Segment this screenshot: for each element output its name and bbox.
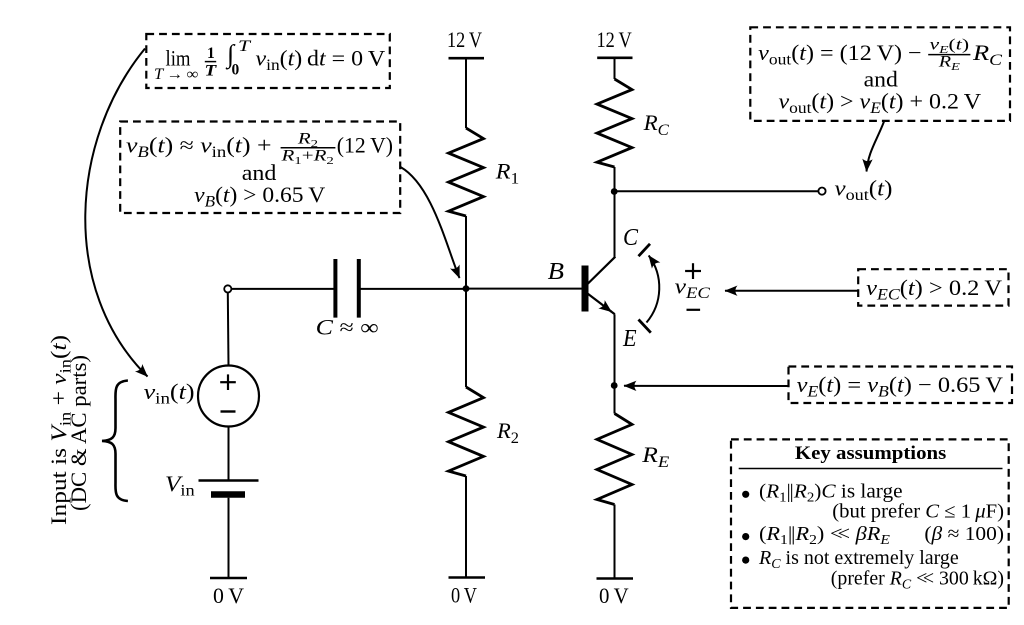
svg-text:(DC & AC parts): (DC & AC parts) bbox=[66, 355, 91, 511]
svg-text:T: T bbox=[205, 63, 217, 80]
annotation box: v_EC constraint bbox=[858, 269, 1008, 305]
svg-text:(β ≈ 100): (β ≈ 100) bbox=[924, 523, 1004, 545]
source v_in bbox=[198, 366, 259, 427]
annotation box: v_E equation bbox=[789, 367, 1013, 404]
svg-text:vE(t) = vB(t) − 0.65 V: vE(t) = vB(t) − 0.65 V bbox=[797, 372, 1004, 401]
wire R2 to ground bbox=[465, 476, 467, 578]
svg-text:(12 V): (12 V) bbox=[337, 133, 393, 158]
wire R1 to node B bbox=[465, 216, 467, 289]
vEC voltage arc bbox=[639, 244, 660, 333]
vout terminal bbox=[818, 188, 825, 195]
label + vEC minus bbox=[675, 263, 711, 310]
supply 12V (output column) bbox=[597, 27, 633, 58]
annotation box: key assumptions bbox=[731, 439, 1009, 608]
resistor R2 bbox=[449, 387, 520, 476]
svg-text:T: T bbox=[238, 38, 252, 55]
svg-text:Key assumptions: Key assumptions bbox=[795, 444, 946, 464]
ground (divider) bbox=[449, 578, 486, 608]
capacitor C bbox=[316, 259, 379, 340]
wire vout node to terminal bbox=[614, 190, 818, 192]
transistor Q1 bbox=[582, 257, 616, 315]
wire terminal to capacitor bbox=[231, 288, 335, 290]
wire source to battery bbox=[228, 427, 230, 481]
svg-text:0 V: 0 V bbox=[213, 583, 244, 608]
wire node B to R2 bbox=[465, 289, 467, 387]
svg-text:C ≈ ∞: C ≈ ∞ bbox=[316, 315, 379, 340]
wire supply to RC bbox=[614, 58, 616, 79]
svg-text:vin(t): vin(t) bbox=[144, 379, 195, 408]
svg-text:1: 1 bbox=[207, 45, 215, 62]
node vout junction bbox=[611, 188, 618, 195]
wire emitter to node E bbox=[614, 314, 616, 385]
svg-text:(but prefer C ≤ 1 μF): (but prefer C ≤ 1 μF) bbox=[832, 501, 1004, 523]
svg-text:12 V: 12 V bbox=[597, 27, 632, 52]
svg-text:C: C bbox=[623, 225, 639, 251]
svg-text:E: E bbox=[622, 326, 637, 352]
annotation box: v_out equations bbox=[750, 27, 1010, 121]
arrow from v_EC box to v_EC label bbox=[725, 290, 858, 292]
svg-text:12 V: 12 V bbox=[447, 27, 482, 52]
wire RE to ground bbox=[614, 505, 616, 579]
annotation box: v_B equations bbox=[120, 122, 400, 214]
svg-text:R1+R2: R1+R2 bbox=[280, 148, 334, 168]
arrow from v_E box to emitter node bbox=[624, 385, 788, 387]
wire capacitor to node B bbox=[359, 288, 466, 290]
resistor R1 bbox=[449, 128, 520, 216]
svg-text:B: B bbox=[548, 259, 565, 285]
svg-text:(R1||R2) << βRE: (R1||R2) << βRE bbox=[759, 523, 890, 548]
svg-text:(prefer RC << 300 kΩ): (prefer RC << 300 kΩ) bbox=[831, 568, 1004, 593]
ground (input) bbox=[210, 578, 247, 608]
node B junction bbox=[463, 285, 470, 292]
brace for input decomposition bbox=[102, 381, 128, 502]
svg-text:0 V: 0 V bbox=[451, 583, 477, 608]
wire terminal down to source bbox=[227, 293, 230, 366]
input terminal bbox=[224, 285, 231, 292]
arrow from v_B box to node B bbox=[401, 167, 460, 278]
svg-text:0 V: 0 V bbox=[599, 583, 629, 608]
arrow from v_out box to v_out terminal bbox=[867, 122, 885, 172]
ground (output) bbox=[597, 579, 634, 609]
svg-text:0: 0 bbox=[232, 62, 240, 79]
resistor RC bbox=[597, 79, 669, 167]
node E junction bbox=[611, 382, 618, 389]
wire RC to vout node bbox=[614, 167, 616, 192]
wire node B to transistor base bbox=[466, 288, 582, 290]
supply 12V (divider column) bbox=[447, 27, 484, 58]
svg-text:T → ∞: T → ∞ bbox=[154, 66, 198, 83]
wire supply to R1 bbox=[465, 58, 467, 128]
battery V_in bbox=[199, 481, 259, 495]
arrow from average box to v_in source bbox=[85, 49, 147, 377]
wire vout node to collector bbox=[614, 192, 616, 258]
wire node E to RE bbox=[614, 386, 616, 414]
wire battery to ground bbox=[228, 498, 230, 578]
annotation box: time-average of v_in bbox=[146, 34, 389, 88]
resistor RE bbox=[597, 414, 670, 505]
